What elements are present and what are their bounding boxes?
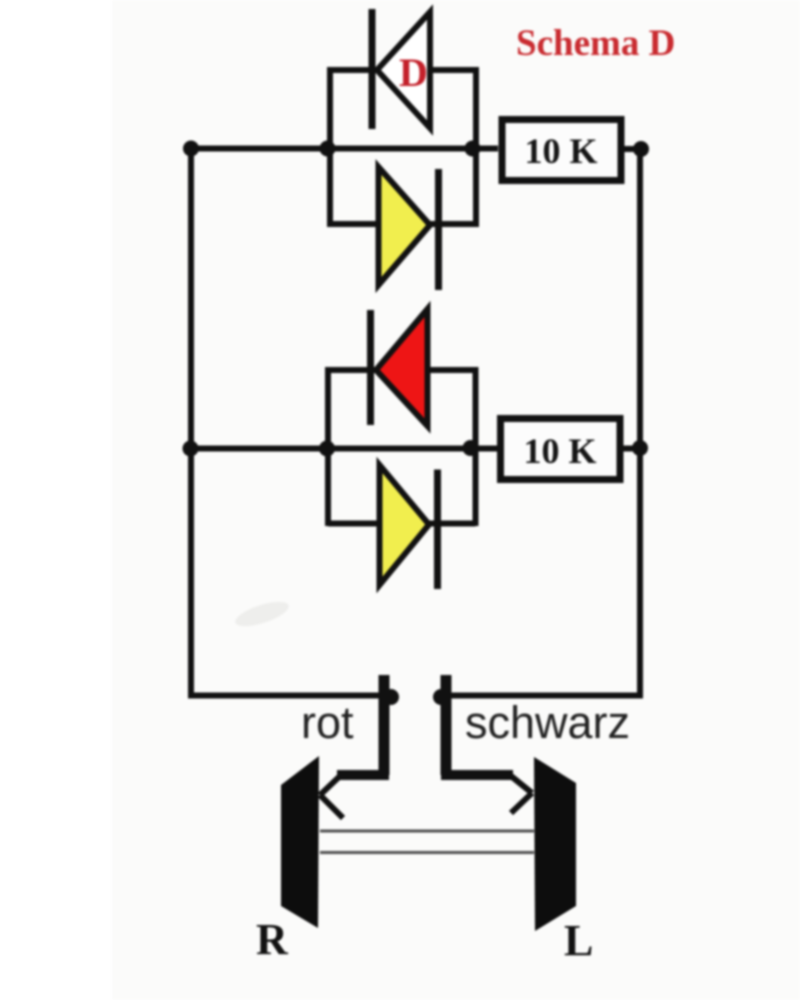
svg-text:L: L: [564, 916, 593, 965]
svg-text:Schema D: Schema D: [516, 23, 675, 64]
svg-text:D: D: [399, 50, 428, 95]
svg-text:10 K: 10 K: [524, 131, 597, 171]
svg-text:10 K: 10 K: [523, 431, 596, 471]
svg-text:rot: rot: [301, 697, 354, 748]
svg-text:R: R: [256, 915, 289, 964]
svg-text:schwarz: schwarz: [465, 697, 630, 748]
